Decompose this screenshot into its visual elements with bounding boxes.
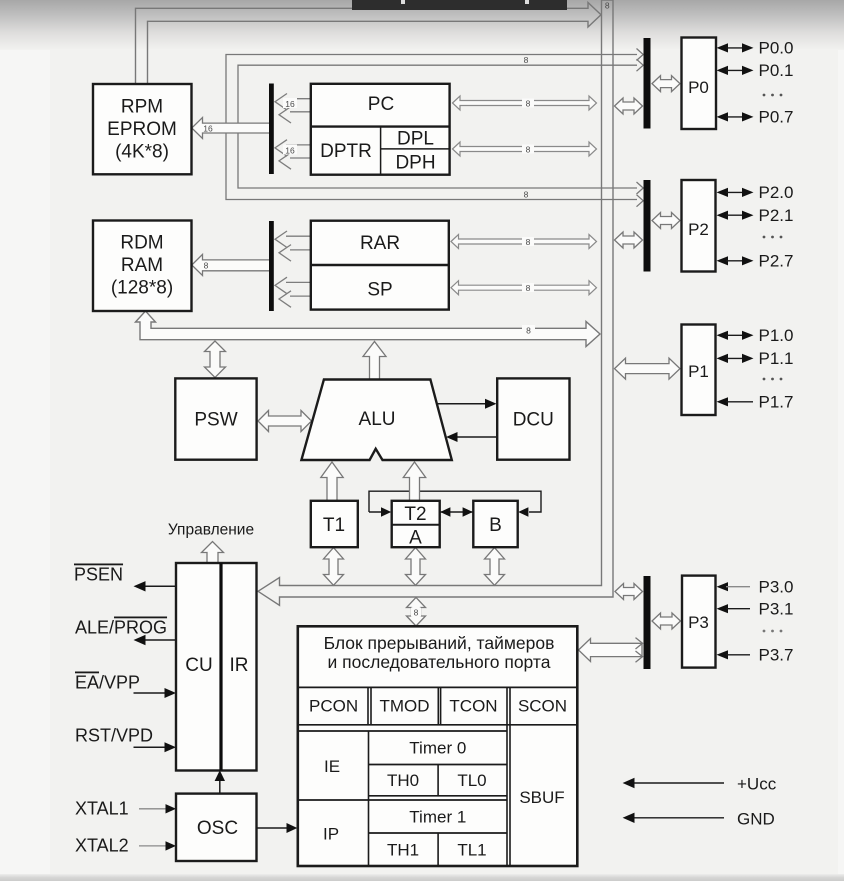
wire: vertical double arrow A to control bus <box>406 548 426 586</box>
svg-text:P3: P3 <box>688 613 709 632</box>
svg-text:B: B <box>489 515 502 536</box>
B register box <box>473 501 517 547</box>
svg-text:SBUF: SBUF <box>519 788 564 807</box>
signal XTAL1 input arrow <box>139 808 166 810</box>
right margin strip <box>838 0 844 881</box>
svg-text:EPROM: EPROM <box>107 119 177 140</box>
pin P3.1 <box>717 599 794 618</box>
wire: double arrow vertical bus to P0 bar <box>615 98 643 114</box>
svg-text:TL0: TL0 <box>457 771 486 790</box>
svg-text:T2: T2 <box>404 504 426 525</box>
svg-text:ALE/PROG: ALE/PROG <box>75 618 167 638</box>
pin P0.0 <box>717 39 794 58</box>
svg-text:EA/VPP: EA/VPP <box>75 673 140 693</box>
svg-text:DPH: DPH <box>395 153 435 174</box>
RPM EPROM box <box>93 84 192 174</box>
thick bus bar at P2 <box>644 180 651 272</box>
svg-text:P2: P2 <box>688 220 709 239</box>
port P3 box <box>682 576 716 668</box>
svg-text:IE: IE <box>324 757 340 776</box>
node dots P3 <box>763 630 783 633</box>
svg-text:PCON: PCON <box>309 697 358 716</box>
port P1 box <box>682 325 716 416</box>
svg-text:(128*8): (128*8) <box>111 278 173 299</box>
wire: wide double arrow interrupt block to P3 bar <box>579 639 643 662</box>
wire: ALU to DCU arrow <box>437 403 486 405</box>
svg-text:+Ucc: +Ucc <box>737 775 777 794</box>
svg-text:16: 16 <box>285 146 295 156</box>
pin P3.0 <box>717 577 794 596</box>
left margin strip <box>0 0 50 881</box>
node 16: label at DPTR bar <box>283 145 297 155</box>
wire: double arrow P2 bar to P2 port <box>652 213 680 229</box>
svg-text:Управление: Управление <box>168 522 254 539</box>
T2 / A register box <box>392 501 440 549</box>
wire: double arrow vertical bus to P1 port <box>615 358 681 379</box>
svg-text:IP: IP <box>323 825 339 844</box>
wire: double arrow P3 bar to P3 port <box>652 613 681 629</box>
wire: vertical double arrow B to control bus <box>485 548 505 586</box>
svg-text:DPL: DPL <box>397 129 434 150</box>
wire: up arrow T2 to ALU <box>403 462 425 501</box>
wire: small arrows DPTR row to bar <box>275 140 311 170</box>
wire: double arrow vertical bus to P2 bar <box>615 232 643 248</box>
svg-text:TH1: TH1 <box>387 841 419 860</box>
top gradient band <box>0 0 844 50</box>
svg-text:Timer 0: Timer 0 <box>409 739 466 758</box>
pin P2.7 <box>717 251 794 270</box>
thick bus bar at RAR/SP <box>269 221 274 311</box>
svg-text:8: 8 <box>204 261 209 271</box>
pin P3.7 <box>717 645 794 664</box>
wire: up arrow ALU to main bus <box>363 342 386 380</box>
svg-text:8: 8 <box>526 283 531 293</box>
T1 register box <box>311 501 358 547</box>
svg-text:TL1: TL1 <box>457 841 486 860</box>
wire: OSC to CU arrow <box>219 779 221 794</box>
svg-text:CU: CU <box>185 655 212 676</box>
svg-text:8: 8 <box>524 190 529 200</box>
wire: inner loop line PC area to P0/P2 bars <box>238 59 643 194</box>
RAR / SP register box <box>311 221 449 310</box>
svg-text:P0.7: P0.7 <box>759 108 794 127</box>
node dots P1 <box>763 378 783 381</box>
svg-text:P1.1: P1.1 <box>759 349 794 368</box>
svg-text:P0.0: P0.0 <box>759 39 794 58</box>
svg-text:Timer 1: Timer 1 <box>409 808 466 827</box>
svg-text:SCON: SCON <box>518 697 567 716</box>
svg-text:P1: P1 <box>688 362 709 381</box>
node 16: label at PC bar <box>283 98 297 108</box>
RDM RAM box <box>93 221 192 312</box>
thick bus bar at P0 <box>644 38 651 129</box>
op-amp-like ALU trapezoid <box>301 380 451 461</box>
svg-text:8: 8 <box>605 1 610 11</box>
svg-text:OSC: OSC <box>197 818 238 839</box>
port P0 box <box>682 38 717 130</box>
signal PSEN output arrow <box>145 585 176 587</box>
pin P2.0 <box>717 183 794 202</box>
wire: right vertical data bus joined to long control arrow into CU/IR <box>258 0 613 605</box>
wire: SP 8-bit double arrow to vertical bus <box>451 281 597 295</box>
svg-text:DPTR: DPTR <box>320 141 372 162</box>
wire: up arrow T1 to ALU <box>321 462 343 501</box>
pin P2.1 <box>717 206 794 225</box>
wire: small arrows RAR row to bar <box>275 231 311 261</box>
svg-text:P0: P0 <box>688 78 709 97</box>
svg-text:T1: T1 <box>323 515 345 536</box>
PC / DPTR register box <box>311 84 450 175</box>
wire: 8-bit vertical double arrow control bus to interrupt block <box>407 597 426 626</box>
svg-text:RAM: RAM <box>121 255 163 276</box>
svg-text:SP: SP <box>367 280 392 301</box>
svg-text:A: A <box>409 528 422 549</box>
svg-text:TCON: TCON <box>449 697 497 716</box>
svg-text:PSEN: PSEN <box>74 565 123 585</box>
svg-text:8: 8 <box>526 145 531 155</box>
svg-text:16: 16 <box>203 124 213 134</box>
svg-text:TMOD: TMOD <box>379 697 429 716</box>
pin P1.1 <box>717 349 794 368</box>
svg-text:16: 16 <box>285 99 295 109</box>
pin P1.7 <box>717 392 794 411</box>
wire: main internal bus between RAM and vertical bus <box>136 311 601 347</box>
svg-text:ALU: ALU <box>359 409 396 430</box>
svg-text:RPM: RPM <box>121 97 163 118</box>
svg-text:8: 8 <box>526 237 531 247</box>
svg-text:P3.7: P3.7 <box>759 645 794 664</box>
svg-text:8: 8 <box>526 99 531 109</box>
svg-text:8: 8 <box>414 608 419 618</box>
svg-text:XTAL2: XTAL2 <box>75 836 129 856</box>
wire: small arrows PC row to bar <box>275 94 311 124</box>
wire: double arrow vertical bus to P3 bar <box>615 584 643 600</box>
svg-text:P2.7: P2.7 <box>759 251 794 270</box>
node dots P2 <box>763 236 783 239</box>
wire: OSC to IP arrow <box>257 827 288 829</box>
signal XTAL2 input arrow <box>139 845 166 847</box>
svg-text:IR: IR <box>230 655 249 676</box>
wire: DCU to ALU arrow <box>457 436 497 438</box>
svg-text:XTAL1: XTAL1 <box>75 799 129 819</box>
signal GND arrow <box>634 817 724 819</box>
svg-text:P0.1: P0.1 <box>759 61 794 80</box>
wire: 16-bit branch from PC bar to RPM EPROM, open arrow <box>192 118 269 139</box>
pin P0.7 <box>717 108 794 127</box>
wire: vertical double arrow T1 to control bus <box>324 548 344 586</box>
CU / IR box <box>176 563 257 771</box>
DCU box <box>497 378 569 459</box>
wire: top address bus from RPM EPROM top to right vertical bus, open arrow right <box>136 3 602 85</box>
svg-text:P3.1: P3.1 <box>759 599 794 618</box>
wire: PC 8-bit double arrow to vertical bus <box>453 96 597 110</box>
svg-text:(4K*8): (4K*8) <box>115 142 169 163</box>
svg-text:GND: GND <box>737 810 775 829</box>
wire: up arrow control unit (Upravlenie) <box>202 542 224 564</box>
thick bus bar at P3 <box>644 576 651 669</box>
wire: small arrows SP row to bar <box>275 277 311 307</box>
signal EA/VPP input arrow <box>134 692 166 694</box>
OSC box <box>176 794 257 861</box>
wire: DPTR 8-bit double arrow to vertical bus <box>453 142 597 156</box>
interrupt/timer/serial block <box>298 626 578 866</box>
svg-text:P1.0: P1.0 <box>759 326 794 345</box>
port P2 box <box>682 180 716 272</box>
svg-text:P1.7: P1.7 <box>759 392 794 411</box>
signal +Ucc arrow <box>634 782 724 784</box>
top dark overlay bar <box>352 0 567 10</box>
svg-text:8: 8 <box>526 326 531 336</box>
svg-text:PC: PC <box>368 94 394 115</box>
svg-text:PSW: PSW <box>194 410 237 431</box>
svg-text:TH0: TH0 <box>387 771 419 790</box>
svg-text:P2.0: P2.0 <box>759 183 794 202</box>
svg-text:Блок прерываний, таймеров: Блок прерываний, таймеров <box>324 633 555 653</box>
bottom gradient band <box>0 874 844 881</box>
wire: double arrow P0 bar to P0 port <box>652 76 680 92</box>
signal ALE/PROG output arrow <box>145 639 176 641</box>
wire: outer loop line PC area to P0/P2 bars <box>226 49 643 207</box>
svg-text:P2.1: P2.1 <box>759 206 794 225</box>
wire: double arrow PSW to ALU <box>258 411 312 432</box>
svg-text:RST/VPD: RST/VPD <box>75 726 153 746</box>
svg-text:и последовательного порта: и последовательного порта <box>328 652 551 672</box>
wire: T2/B feedback loop <box>369 491 541 512</box>
PSW box <box>175 378 256 459</box>
wire: RAR 8-bit double arrow to vertical bus <box>451 235 597 249</box>
svg-text:DCU: DCU <box>513 410 554 431</box>
resistor-like thick bus bar at PC/DPTR <box>269 84 274 175</box>
wire: vertical double arrow main bus to PSW <box>205 341 226 378</box>
pin P1.0 <box>717 326 794 345</box>
svg-text:8: 8 <box>524 55 529 65</box>
signal RST/VPD input arrow <box>134 746 166 748</box>
node dots P0 <box>763 94 783 97</box>
svg-text:RAR: RAR <box>360 233 400 254</box>
svg-text:RDM: RDM <box>120 233 163 254</box>
pin P0.1 <box>717 61 794 80</box>
svg-text:P3.0: P3.0 <box>759 577 794 596</box>
wire: 8-bit branch from RAR bar to RDM RAM, open arrow <box>192 254 269 275</box>
